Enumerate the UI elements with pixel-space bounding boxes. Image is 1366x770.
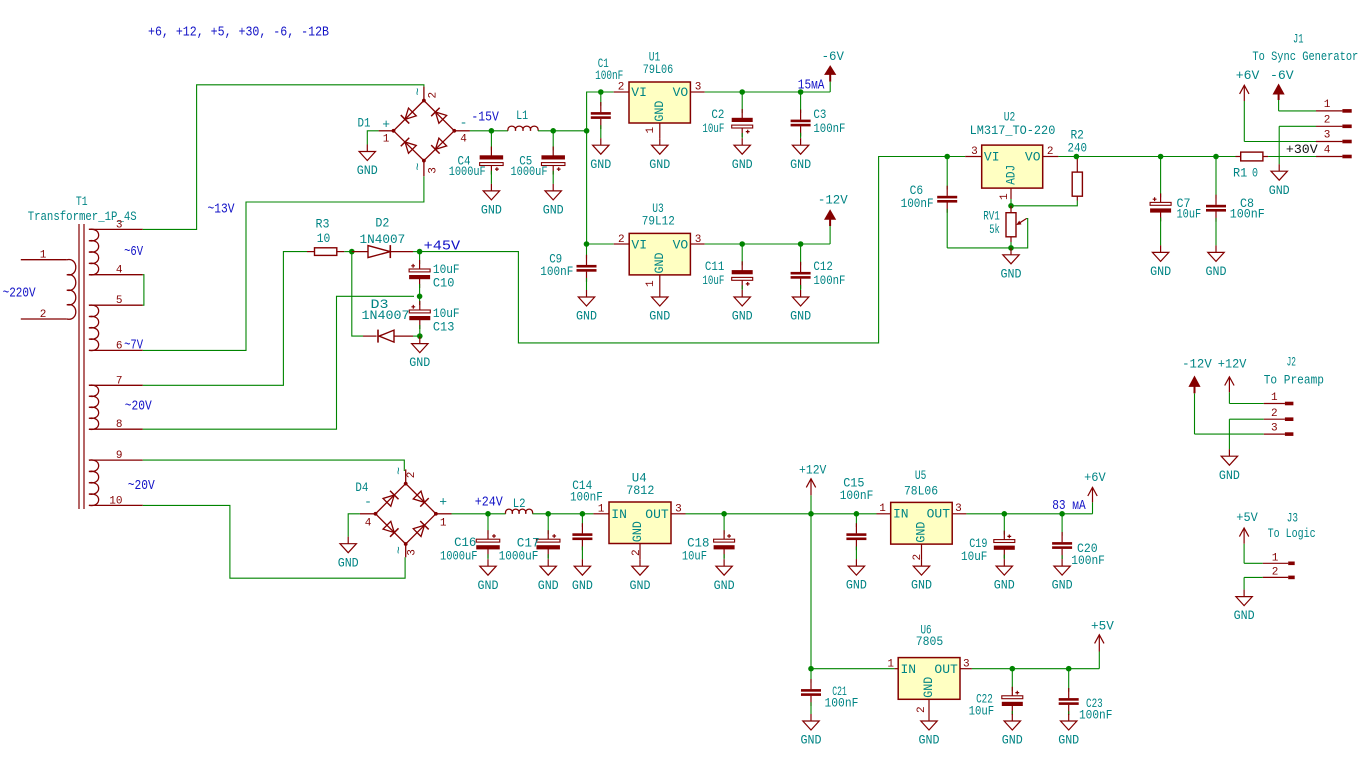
svg-text:78L06: 78L06 xyxy=(904,484,938,499)
junction C7 xyxy=(1158,154,1164,160)
svg-text:100nF: 100nF xyxy=(1079,707,1112,722)
junction C11 xyxy=(739,241,745,247)
svg-text:1: 1 xyxy=(383,134,390,146)
svg-text:GND: GND xyxy=(790,309,811,324)
capacitor C11 xyxy=(741,244,743,265)
svg-text:+6V: +6V xyxy=(1084,470,1106,485)
svg-text:-: - xyxy=(460,116,468,131)
power symbol -6V at J1 xyxy=(1278,100,1280,111)
svg-text:~: ~ xyxy=(410,88,425,96)
inductor L2 xyxy=(505,509,532,514)
U2 pin 1 ADJ xyxy=(1010,188,1012,199)
wire pin4 to pin5 jog xyxy=(143,275,144,306)
svg-text:GND: GND xyxy=(652,100,667,121)
ground at C14 xyxy=(581,559,583,566)
power symbol +5V at J3 xyxy=(1243,544,1245,564)
junction C13 bottom node xyxy=(417,333,423,339)
capacitor C4 xyxy=(490,131,492,151)
junction after R3 xyxy=(349,249,355,255)
ground at J3 xyxy=(1243,590,1245,597)
ground at C16 xyxy=(487,559,489,566)
svg-text:1: 1 xyxy=(887,659,894,671)
svg-text:~: ~ xyxy=(391,546,406,554)
svg-text:-6V: -6V xyxy=(1270,68,1294,83)
capacitor C9 xyxy=(586,244,588,259)
D4 pin stubs xyxy=(403,469,405,471)
wire pin10 to D4 bottom xyxy=(143,505,405,578)
svg-text:1: 1 xyxy=(440,517,447,529)
U4 pin 1 xyxy=(593,513,609,515)
svg-text:D1: D1 xyxy=(358,115,371,130)
svg-text:~13V: ~13V xyxy=(208,203,236,218)
svg-text:10uF: 10uF xyxy=(702,273,724,288)
wire -15V vertical to U1 and U3 rows xyxy=(587,92,614,244)
wire -12V to J2 pin 3 xyxy=(1195,433,1264,435)
ground at C17 xyxy=(547,559,549,566)
svg-text:7812: 7812 xyxy=(626,483,654,498)
svg-text:-: - xyxy=(364,494,372,509)
ground at C11 xyxy=(741,290,743,297)
svg-text:GND: GND xyxy=(538,578,559,593)
capacitor C3 xyxy=(800,92,802,113)
capacitor C15 xyxy=(855,514,857,527)
ground at C1 xyxy=(600,138,602,145)
svg-text:+12V: +12V xyxy=(1218,357,1247,372)
svg-text:C10: C10 xyxy=(433,276,455,291)
svg-text:10uF: 10uF xyxy=(682,548,707,563)
svg-text:4: 4 xyxy=(460,134,467,146)
svg-text:GND: GND xyxy=(919,733,940,748)
svg-text:100nF: 100nF xyxy=(813,121,845,136)
ground at J1 pin 2 xyxy=(1278,164,1280,171)
svg-text:3: 3 xyxy=(955,503,962,515)
J2 pin 2 xyxy=(1264,418,1285,420)
svg-text:GND: GND xyxy=(714,578,735,593)
svg-text:C3: C3 xyxy=(813,107,826,122)
voltage regulator U3 79L12 xyxy=(629,233,690,275)
svg-text:8: 8 xyxy=(116,419,123,431)
svg-text:3: 3 xyxy=(1324,130,1331,142)
D1 pin stubs xyxy=(423,87,425,101)
wire R3 to D2 xyxy=(344,251,352,253)
junction C14 xyxy=(580,511,586,517)
junction C2 xyxy=(739,89,745,95)
svg-text:100nF: 100nF xyxy=(901,196,934,211)
svg-text:OUT: OUT xyxy=(927,507,951,522)
voltage regulator U1 79L06 xyxy=(629,82,690,123)
T1 secondary winding pins 5-6 xyxy=(89,304,143,306)
power symbol -6V xyxy=(829,82,831,92)
diode D3 1N4007 xyxy=(377,330,379,343)
svg-text:9: 9 xyxy=(116,450,123,462)
inductor L1 xyxy=(508,126,538,131)
svg-text:7805: 7805 xyxy=(916,634,944,649)
svg-text:7: 7 xyxy=(116,375,123,387)
svg-text:5k: 5k xyxy=(989,222,1000,237)
svg-text:-6V: -6V xyxy=(822,49,844,64)
U1 pin 1 GND xyxy=(659,123,661,138)
svg-text:To Logic: To Logic xyxy=(1268,526,1316,541)
junction C16 xyxy=(485,511,491,517)
svg-text:83 мА: 83 мА xyxy=(1052,499,1086,514)
voltage regulator U4 7812 xyxy=(609,502,671,544)
wire pin6 to D1 bottom xyxy=(143,176,424,350)
svg-text:3: 3 xyxy=(971,146,978,158)
capacitor C8 xyxy=(1215,157,1217,199)
T1 secondary winding pins 7-8 xyxy=(89,384,143,386)
svg-text:100nF: 100nF xyxy=(1230,207,1265,222)
svg-text:~220V: ~220V xyxy=(3,287,37,302)
svg-text:GND: GND xyxy=(790,157,811,172)
transformer T1 core xyxy=(78,224,80,509)
voltage regulator U2 LM317_TO-220 xyxy=(982,145,1043,188)
svg-text:+30V: +30V xyxy=(1286,142,1318,157)
resistor R3 xyxy=(307,251,315,253)
svg-text:2: 2 xyxy=(618,234,625,246)
wire pin7 to R3 xyxy=(143,252,307,386)
capacitor C14 xyxy=(581,514,583,527)
svg-text:1: 1 xyxy=(40,250,47,262)
svg-text:240: 240 xyxy=(1067,140,1087,155)
capacitor C17 xyxy=(547,514,549,534)
svg-text:1000uF: 1000uF xyxy=(440,548,478,563)
svg-text:10: 10 xyxy=(109,495,122,507)
junction C5 xyxy=(550,128,556,134)
J2 pin 1 xyxy=(1264,403,1285,405)
ground at U1 xyxy=(659,138,661,145)
svg-text:R3: R3 xyxy=(316,216,330,231)
svg-text:100nF: 100nF xyxy=(570,489,603,504)
junction C1 xyxy=(598,89,604,95)
U4 pin 2 GND xyxy=(639,544,641,560)
wire D2 node down to D3 xyxy=(352,252,363,337)
svg-text:2: 2 xyxy=(40,309,47,321)
svg-text:10uF: 10uF xyxy=(702,121,724,136)
wire U1 output rail xyxy=(705,91,831,93)
svg-text:+: + xyxy=(382,117,390,132)
D1 ground wire xyxy=(367,131,378,145)
svg-text:1: 1 xyxy=(1271,392,1278,404)
capacitor C2 xyxy=(741,92,743,113)
ground at C20 xyxy=(1061,559,1063,566)
svg-text:IN: IN xyxy=(893,507,909,522)
svg-text:J2: J2 xyxy=(1287,355,1296,370)
ground at C7 xyxy=(1160,245,1162,252)
svg-text:+24V: +24V xyxy=(475,495,504,510)
svg-text:3: 3 xyxy=(428,167,440,174)
svg-text:0: 0 xyxy=(1252,165,1258,180)
wire RV1 wiper to bottom xyxy=(1011,219,1028,248)
svg-text:GND: GND xyxy=(1058,733,1079,748)
wire pin9 to D4 top xyxy=(143,460,405,469)
ground at U6 xyxy=(928,714,930,721)
svg-text:GND: GND xyxy=(732,157,753,172)
svg-text:J3: J3 xyxy=(1287,511,1298,526)
svg-text:GND: GND xyxy=(338,555,359,570)
J1 pin 3 xyxy=(1316,141,1342,143)
U3 pin 2 xyxy=(614,243,630,245)
svg-text:100nF: 100nF xyxy=(825,695,859,710)
svg-text:IN: IN xyxy=(901,662,917,677)
ground at C18 xyxy=(723,559,725,566)
svg-text:~7V: ~7V xyxy=(124,339,144,354)
ground at C19 xyxy=(1003,559,1005,566)
T1 secondary winding pins 3-4 xyxy=(89,228,143,230)
svg-text:1: 1 xyxy=(598,503,605,515)
junction C3 xyxy=(798,89,804,95)
svg-text:GND: GND xyxy=(481,203,502,218)
wire pin8 to C10-C13 node xyxy=(143,296,414,429)
ground at C22 xyxy=(1011,714,1013,721)
svg-text:~6V: ~6V xyxy=(124,245,144,260)
wire junction to U3 input xyxy=(587,243,614,245)
svg-text:To Preamp: To Preamp xyxy=(1264,373,1324,388)
svg-text:GND: GND xyxy=(1206,264,1227,279)
svg-text:GND: GND xyxy=(914,521,929,542)
svg-text:GND: GND xyxy=(1234,608,1255,623)
wire +5V to J3 pin 1 xyxy=(1244,562,1263,564)
svg-text:100nF: 100nF xyxy=(1071,553,1105,568)
wire L1 to corner xyxy=(538,130,587,132)
J3 pin 1 xyxy=(1263,562,1289,564)
capacitor C13 xyxy=(419,296,421,305)
ground at C23 xyxy=(1068,714,1070,721)
capacitor C23 xyxy=(1068,669,1070,692)
svg-text:2: 2 xyxy=(916,706,928,713)
svg-text:VI: VI xyxy=(631,238,647,253)
ground at D4 xyxy=(347,537,349,544)
ground at C13 xyxy=(419,337,421,344)
svg-text:+6V: +6V xyxy=(1236,68,1260,83)
ground at C5 xyxy=(552,184,554,191)
capacitor C12 xyxy=(800,244,802,265)
svg-text:-12V: -12V xyxy=(818,193,848,208)
junction C8 xyxy=(1213,154,1219,160)
svg-text:+6, +12, +5, +30, -6, -12В: +6, +12, +5, +30, -6, -12В xyxy=(148,26,329,41)
ground at C8 xyxy=(1215,245,1217,252)
capacitor C1 xyxy=(600,92,602,106)
svg-text:1: 1 xyxy=(1324,99,1331,111)
wire RV1 bottom to GND and C6 xyxy=(947,242,1011,248)
ground at C4 xyxy=(490,184,492,191)
svg-text:VO: VO xyxy=(1025,150,1041,165)
ground at C2 xyxy=(741,138,743,145)
power symbol +6V at J1 xyxy=(1243,101,1245,142)
capacitor C18 xyxy=(723,514,725,534)
ground at C21 xyxy=(810,714,812,721)
wire L2 to U4 xyxy=(533,513,594,515)
junction R2 top xyxy=(1074,154,1080,160)
junction +12V node xyxy=(808,511,814,517)
svg-text:GND: GND xyxy=(576,309,597,324)
svg-text:GND: GND xyxy=(921,677,936,698)
svg-text:2: 2 xyxy=(428,92,440,99)
voltage regulator U5 78L06 xyxy=(891,502,953,544)
capacitor C10 xyxy=(419,252,421,264)
svg-text:ADJ: ADJ xyxy=(1004,165,1019,185)
power symbol -12V at J2 xyxy=(1194,393,1196,434)
T1 secondary winding pins 9-10 xyxy=(89,459,143,461)
wire U6 output rail xyxy=(972,668,1099,670)
U3 pin 3 xyxy=(690,243,704,245)
capacitor C5 xyxy=(552,131,554,151)
capacitor C16 xyxy=(487,514,489,534)
U2 pin 3 xyxy=(965,156,982,158)
wire J2 pin 2 to GND xyxy=(1229,418,1263,420)
svg-text:1000uF: 1000uF xyxy=(511,164,548,179)
capacitor C7 xyxy=(1160,157,1162,198)
svg-text:D2: D2 xyxy=(375,216,389,231)
junction C6 xyxy=(944,154,950,160)
junction RV1 bottom xyxy=(1008,245,1014,251)
ground at C15 xyxy=(855,559,857,566)
bridge rectifier D4 xyxy=(376,484,436,544)
svg-text:1: 1 xyxy=(645,127,657,134)
junction C12 xyxy=(798,241,804,247)
D4 ground wire xyxy=(348,514,360,537)
ground at U3 xyxy=(659,290,661,297)
svg-text:C12: C12 xyxy=(813,259,833,274)
transformer T1 primary winding xyxy=(21,259,67,261)
svg-text:3: 3 xyxy=(963,659,970,671)
wire U2 output rail to R1 xyxy=(1058,156,1235,158)
power symbol +12V xyxy=(810,495,812,514)
svg-text:GND: GND xyxy=(1150,264,1171,279)
junction ADJ node xyxy=(1008,203,1014,209)
power symbol +6V xyxy=(1092,502,1094,514)
svg-text:GND: GND xyxy=(994,578,1015,593)
bridge rectifier D1 xyxy=(394,101,455,161)
svg-text:10uF: 10uF xyxy=(1177,207,1202,222)
svg-text:1N4007: 1N4007 xyxy=(360,232,406,247)
svg-text:2: 2 xyxy=(1271,408,1278,420)
svg-text:-12V: -12V xyxy=(1182,357,1212,372)
svg-text:J1: J1 xyxy=(1293,31,1304,46)
diode D2 1N4007 xyxy=(352,251,368,253)
svg-text:10: 10 xyxy=(317,231,331,246)
junction C23 xyxy=(1066,666,1072,672)
svg-text:+5V: +5V xyxy=(1091,619,1114,634)
ground at C12 xyxy=(800,290,802,297)
wire -15V rail xyxy=(470,130,508,132)
svg-text:4: 4 xyxy=(1324,145,1331,157)
U1 pin 3 xyxy=(690,91,704,93)
capacitor C22 xyxy=(1011,669,1013,691)
svg-text:1N4007: 1N4007 xyxy=(362,308,410,323)
svg-text:GND: GND xyxy=(409,355,430,370)
svg-text:GND: GND xyxy=(1219,468,1240,483)
svg-text:GND: GND xyxy=(1269,183,1290,198)
U4 pin 3 xyxy=(671,513,686,515)
svg-text:+12V: +12V xyxy=(799,462,827,477)
wire U5 output rail xyxy=(966,513,1092,515)
J1 pin 4 xyxy=(1316,156,1342,158)
svg-text:3: 3 xyxy=(1271,423,1278,435)
power symbol +5V xyxy=(1098,652,1100,669)
capacitor C21 xyxy=(810,669,812,683)
svg-text:2: 2 xyxy=(618,81,625,93)
svg-text:L1: L1 xyxy=(516,108,528,123)
junction C4 xyxy=(489,128,495,134)
junction -15V vertical xyxy=(584,128,590,134)
wire ADJ to R2 bottom xyxy=(1011,201,1077,206)
wire +45V to U2 input xyxy=(420,157,966,343)
ground at U5 xyxy=(921,559,923,566)
svg-text:1: 1 xyxy=(999,193,1011,200)
svg-text:+: + xyxy=(439,494,447,509)
svg-text:10uF: 10uF xyxy=(961,549,987,564)
ground at C3 xyxy=(800,138,802,145)
svg-text:2: 2 xyxy=(1324,115,1331,127)
svg-text:+5V: +5V xyxy=(1236,510,1258,525)
ground at C9 xyxy=(586,290,588,297)
U1 pin 2 xyxy=(614,91,629,93)
wire pin3 to top rail xyxy=(143,85,424,230)
wire +24V rail xyxy=(452,513,506,515)
svg-text:3: 3 xyxy=(116,219,123,231)
U6 pin 3 xyxy=(960,668,972,670)
svg-text:GND: GND xyxy=(911,578,932,593)
svg-text:1: 1 xyxy=(1272,552,1279,564)
U6 pin 2 GND xyxy=(928,699,930,714)
wire +12V node down to U6 row xyxy=(810,514,812,669)
svg-text:C13: C13 xyxy=(433,320,455,335)
svg-text:3: 3 xyxy=(695,234,702,246)
svg-text:GND: GND xyxy=(590,157,611,172)
junction C22 xyxy=(1010,666,1016,672)
wire C21 to U6 xyxy=(811,668,895,670)
svg-text:LM317_TO-220: LM317_TO-220 xyxy=(970,123,1056,138)
svg-text:GND: GND xyxy=(1052,578,1073,593)
svg-text:VI: VI xyxy=(984,150,1000,165)
wire +6V to J1 pin 3 xyxy=(1244,141,1316,143)
svg-text:GND: GND xyxy=(846,578,867,593)
svg-text:~20V: ~20V xyxy=(125,400,153,415)
svg-text:GND: GND xyxy=(572,578,593,593)
svg-text:GND: GND xyxy=(630,578,651,593)
svg-text:100nF: 100nF xyxy=(840,488,874,503)
svg-text:100nF: 100nF xyxy=(540,264,573,279)
svg-text:2: 2 xyxy=(631,549,643,556)
wire J3 pin 2 to GND xyxy=(1244,576,1263,578)
junction C19 xyxy=(1002,511,1008,517)
svg-text:OUT: OUT xyxy=(645,507,669,522)
J1 pin 1 xyxy=(1316,110,1342,112)
power symbol -12V xyxy=(829,226,831,244)
svg-text:4: 4 xyxy=(365,517,372,529)
svg-text:1000uF: 1000uF xyxy=(499,548,539,563)
wire U3 output rail xyxy=(705,243,830,245)
svg-text:GND: GND xyxy=(1002,733,1023,748)
svg-text:U5: U5 xyxy=(915,468,926,483)
svg-text:T1: T1 xyxy=(76,194,88,209)
U2 pin 2 xyxy=(1043,156,1059,158)
U5 pin 1 xyxy=(877,513,891,515)
svg-text:GND: GND xyxy=(649,157,670,172)
U5 pin 2 GND xyxy=(921,544,923,559)
wire J1 pin 2 to GND xyxy=(1279,125,1316,127)
ground at RV1 xyxy=(1010,248,1012,255)
svg-text:~20V: ~20V xyxy=(128,479,156,494)
wire U4 output rail xyxy=(686,513,877,515)
svg-text:C11: C11 xyxy=(705,259,725,274)
capacitor C19 xyxy=(1003,514,1005,535)
svg-text:2: 2 xyxy=(1272,566,1279,578)
J2 pin 3 xyxy=(1264,433,1285,435)
svg-text:To Sync Generator: To Sync Generator xyxy=(1252,49,1358,64)
ground at U4 xyxy=(639,559,641,566)
svg-text:IN: IN xyxy=(611,507,627,522)
